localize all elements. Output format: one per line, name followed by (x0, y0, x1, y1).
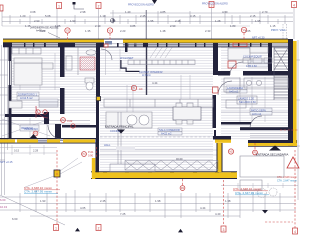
svg-text:3.08: 3.08 (30, 10, 36, 14)
svg-text:2: 2 (98, 227, 100, 231)
svg-text:2.70: 2.70 (262, 10, 268, 14)
svg-text:4: 4 (294, 230, 296, 234)
svg-text:4.05: 4.05 (80, 206, 86, 210)
svg-text:1.15: 1.15 (270, 24, 276, 28)
svg-text:H 60cm: H 60cm (142, 73, 151, 77)
svg-text:0.90: 0.90 (88, 154, 94, 158)
svg-text:4: 4 (293, 4, 295, 8)
svg-text:DORMITORIO 1: DORMITORIO 1 (18, 93, 38, 97)
svg-text:COCINA EQUIP: COCINA EQUIP (243, 55, 262, 59)
svg-text:4.44: 4.44 (200, 206, 206, 210)
svg-text:2.90: 2.90 (170, 24, 176, 28)
svg-text:0.15: 0.15 (14, 149, 20, 153)
svg-text:1.93: 1.93 (70, 19, 76, 23)
svg-text:2.10: 2.10 (95, 24, 101, 28)
svg-text:A=22 m2: A=22 m2 (161, 132, 172, 136)
svg-text:AC: AC (139, 87, 143, 91)
svg-text:NPT +0.15: NPT +0.15 (0, 160, 13, 164)
svg-text:NPT +0.30: NPT +0.30 (252, 36, 265, 40)
svg-text:W.CLOSET: W.CLOSET (120, 56, 134, 60)
svg-text:4.30: 4.30 (222, 10, 228, 14)
svg-text:0.90: 0.90 (110, 19, 116, 23)
svg-text:1.55: 1.55 (148, 19, 154, 23)
svg-text:2.48: 2.48 (175, 19, 181, 23)
svg-text:CTA. 2,647.95 msnm: CTA. 2,647.95 msnm (24, 190, 53, 194)
svg-text:COCINA: COCINA (110, 129, 120, 133)
svg-text:V-02: V-02 (67, 119, 73, 123)
svg-text:2.28: 2.28 (33, 149, 39, 153)
svg-text:6.60: 6.60 (12, 217, 18, 221)
svg-text:1.85 0.60: 1.85 0.60 (246, 64, 257, 68)
svg-text:3.15: 3.15 (190, 14, 196, 18)
svg-text:2.15: 2.15 (250, 14, 256, 18)
svg-text:10.43: 10.43 (0, 205, 7, 209)
svg-text:ENTRADA SECUNDARIA: ENTRADA SECUNDARIA (256, 153, 288, 157)
svg-text:PATIO SERV: PATIO SERV (251, 109, 266, 113)
svg-text:1: 1 (55, 227, 57, 231)
svg-text:1.93: 1.93 (40, 199, 46, 203)
svg-text:1.35: 1.35 (85, 29, 91, 33)
svg-text:1.65: 1.65 (245, 29, 251, 33)
svg-text:ENTRADA PRINCIPAL: ENTRADA PRINCIPAL (105, 125, 134, 129)
svg-text:1.80: 1.80 (230, 24, 236, 28)
svg-text:SALA COMEDOR: SALA COMEDOR (159, 128, 180, 132)
svg-text:CTA. 2,647.95 msnm: CTA. 2,647.95 msnm (235, 191, 264, 195)
svg-text:1.48: 1.48 (160, 29, 166, 33)
svg-text:1.38: 1.38 (225, 199, 231, 203)
svg-text:2.23: 2.23 (120, 29, 126, 33)
svg-text:2.98: 2.98 (80, 10, 86, 14)
svg-text:CTA. 2,647 msnm: CTA. 2,647 msnm (277, 180, 297, 183)
svg-text:PROY. VIGA: PROY. VIGA (271, 28, 286, 32)
svg-text:h=80cm: h=80cm (36, 29, 45, 33)
svg-text:INGRESO: INGRESO (21, 126, 33, 130)
svg-text:LAVADO 1.20: LAVADO 1.20 (238, 97, 254, 101)
svg-text:2.45: 2.45 (100, 199, 106, 203)
svg-text:1.28: 1.28 (215, 19, 221, 23)
svg-text:1.95: 1.95 (255, 19, 261, 23)
svg-text:6.60: 6.60 (0, 198, 6, 202)
svg-text:5.08: 5.08 (45, 14, 51, 18)
svg-text:1.98: 1.98 (155, 199, 161, 203)
svg-text:P-01: P-01 (88, 150, 94, 154)
svg-text:1: 1 (58, 5, 60, 9)
svg-text:1.10: 1.10 (100, 14, 106, 18)
svg-text:PROYECCION ALERO: PROYECCION ALERO (128, 4, 154, 7)
svg-text:A=12.5 m2: A=12.5 m2 (20, 96, 33, 100)
svg-text:2: 2 (98, 5, 100, 9)
svg-text:4.40: 4.40 (215, 212, 221, 216)
svg-text:1.40: 1.40 (125, 10, 131, 14)
svg-text:HALL: HALL (104, 143, 111, 147)
svg-text:2.33: 2.33 (205, 29, 211, 33)
svg-text:LAVANDERIA: LAVANDERIA (227, 86, 243, 90)
svg-text:0.85: 0.85 (130, 24, 136, 28)
svg-text:1.20: 1.20 (20, 14, 26, 18)
svg-text:SECADO 0.60: SECADO 0.60 (239, 100, 256, 104)
svg-text:PROYECCION ALERO: PROYECCION ALERO (202, 3, 228, 6)
svg-text:4.44: 4.44 (152, 81, 158, 85)
svg-text:A=5 m2: A=5 m2 (229, 90, 239, 94)
svg-text:2.93: 2.93 (34, 19, 40, 23)
svg-text:±0.00: ±0.00 (176, 157, 183, 161)
svg-text:7.25: 7.25 (120, 212, 126, 216)
svg-text:2.45: 2.45 (140, 14, 146, 18)
svg-text:3: 3 (223, 228, 225, 232)
svg-text:4.85: 4.85 (160, 10, 166, 14)
svg-text:A=6 m2: A=6 m2 (252, 112, 262, 116)
